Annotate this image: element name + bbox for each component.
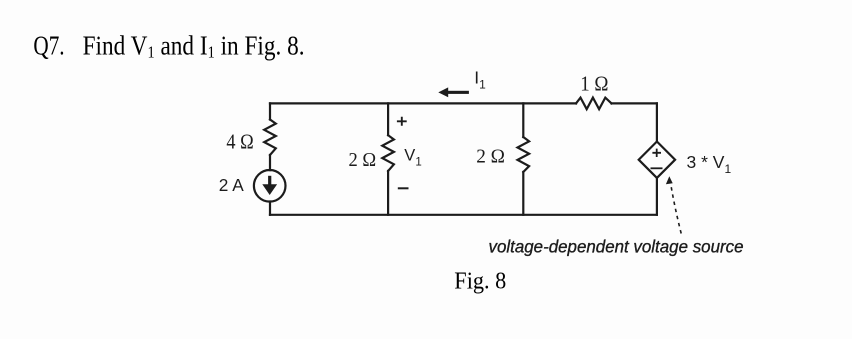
annotation text: voltage-dependent voltage source [489, 237, 744, 257]
svg-text:4 Ω: 4 Ω [226, 129, 253, 153]
label minus (V1 polarity) [398, 187, 409, 189]
label plus (V1 polarity) [397, 117, 407, 126]
svg-text:2 A: 2 A [219, 175, 244, 195]
label 2 A [219, 175, 244, 195]
label 2 ohm (third branch) [476, 145, 505, 167]
wire: top horizontal net (node between branches) [270, 102, 657, 104]
svg-text:V1: V1 [404, 146, 421, 168]
wire: left branch vertical segments [269, 103, 271, 214]
label 4 ohm [226, 129, 253, 153]
arrow inside current source (pointing down) [262, 176, 277, 195]
current arrow I1 (pointing left above top wire) [438, 87, 469, 97]
resistor 2ohm (branch with V1) [382, 135, 394, 171]
minus sign inside diamond [651, 167, 663, 169]
dashed annotation arrow to dependent source [666, 176, 681, 233]
svg-text:2 Ω: 2 Ω [476, 145, 505, 167]
svg-text:Fig. 8: Fig. 8 [454, 268, 506, 294]
svg-text:voltage-dependent voltage sour: voltage-dependent voltage source [489, 237, 744, 257]
svg-text:1 Ω: 1 Ω [580, 71, 608, 95]
resistor 1ohm (top right, horizontal) [576, 98, 612, 110]
svg-text:Find V1 and I1 in Fig. 8.: Find V1 and I1 in Fig. 8. [83, 30, 305, 62]
wire: branch 3 vertical segments [522, 103, 524, 214]
title: Q7. Find V1 and I1 in Fig. 8. [33, 30, 304, 62]
caption: Fig. 8 [454, 268, 506, 294]
svg-text:3 * V1: 3 * V1 [687, 152, 732, 176]
svg-text:2 Ω: 2 Ω [349, 149, 377, 171]
current source 2A (circle) [254, 170, 286, 202]
resistor 2ohm (third branch) [518, 137, 530, 172]
label 3*V1 (controlled source value) [687, 152, 732, 176]
plus sign inside diamond [652, 149, 661, 157]
wire: right branch vertical segments [656, 103, 658, 214]
svg-text:Q7.: Q7. [33, 30, 64, 61]
label I1 [474, 67, 486, 91]
resistor 4ohm (left branch) [264, 120, 276, 156]
label 2 ohm (branch with V1) [349, 149, 377, 171]
label 1 ohm [580, 71, 608, 95]
dependent source diamond (voltage-dependent voltage source) [639, 142, 675, 178]
svg-text:I1: I1 [474, 67, 486, 91]
label V1 [404, 146, 421, 168]
wire: branch 2 vertical segments [387, 103, 389, 214]
wire: bottom horizontal ground net [270, 214, 657, 216]
